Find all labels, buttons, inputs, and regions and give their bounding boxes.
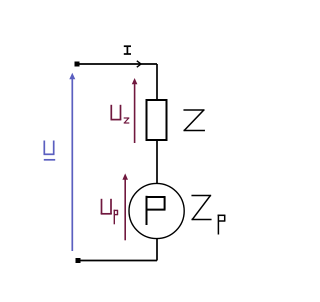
wire between meter circle and bottom wire bbox=[156, 239, 158, 261]
wire between impedance Z and meter circle bbox=[156, 140, 158, 184]
label U_z : letter U (dark red) bbox=[111, 105, 122, 120]
label Z_P : letter Z bbox=[192, 196, 211, 220]
wire right vertical (top wire to impedance Z) bbox=[156, 64, 158, 100]
label I (current) bbox=[124, 46, 131, 54]
label U_z : subscript z bbox=[124, 118, 128, 123]
label U_p : letter U (dark red) bbox=[101, 199, 112, 214]
voltage arrow U (blue, pointing up) bbox=[69, 73, 75, 251]
node terminal bottom-left (square dot) bbox=[76, 258, 81, 263]
node terminal top-left (square dot) bbox=[75, 62, 80, 67]
voltage arrow U_p (dark red, pointing up) bbox=[122, 173, 128, 240]
voltage arrow U_z (dark red, pointing up) bbox=[132, 78, 138, 143]
label U (blue, underlined) bbox=[44, 141, 56, 160]
wire top horizontal bbox=[77, 63, 157, 65]
label Z (impedance) bbox=[184, 110, 204, 131]
wire bottom horizontal bbox=[78, 260, 157, 262]
current arrow chevron on top wire bbox=[137, 61, 141, 67]
impedance Z (rectangle) bbox=[147, 100, 167, 140]
letter P inside circle bbox=[146, 196, 166, 225]
label Z_P : subscript P bbox=[218, 215, 226, 235]
label U_p : subscript p bbox=[114, 210, 119, 225]
meter / load Z_P (circle with P) bbox=[129, 183, 184, 238]
